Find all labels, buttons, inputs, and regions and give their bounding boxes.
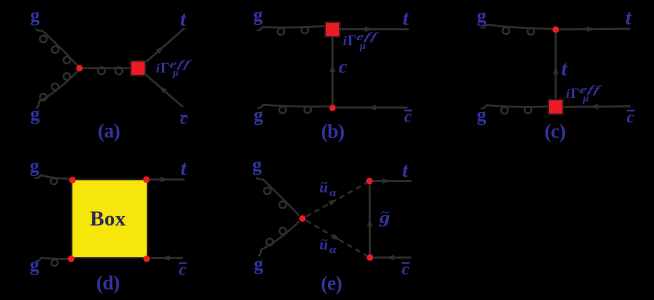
label u~_alpha (e bottom) (320, 233, 337, 256)
red square effective vertex (c) (548, 99, 563, 114)
label iGamma_eff_mu (b) (343, 30, 380, 51)
svg-text:i: i (343, 33, 347, 48)
charm antiquark line cbar (c) (564, 104, 631, 110)
svg-text:i: i (156, 61, 160, 76)
red corner dot (d top-right) (143, 176, 150, 183)
svg-text:(d): (d) (96, 272, 119, 294)
red square effective vertex (a) (131, 61, 146, 76)
svg-text:(c): (c) (545, 121, 566, 143)
svg-text:(a): (a) (98, 121, 120, 143)
overline of cbar (b) (404, 110, 412, 112)
top quark line t (b) (340, 26, 409, 32)
red corner dot (d bottom-right) (143, 255, 150, 262)
gluon propagator (a) (82, 67, 131, 74)
squark u~_alpha line (e top) (306, 183, 366, 217)
yellow Box blob (d) (72, 179, 148, 258)
svg-text:(e): (e) (321, 273, 342, 295)
svg-text:eff: eff (578, 83, 603, 95)
top quark line t (e) (373, 178, 412, 184)
charm antiquark line cbar (d) (151, 255, 183, 261)
svg-text:g: g (477, 105, 487, 126)
red vertex dot (e center) (299, 215, 306, 222)
gluon g (d bottom-left) (36, 258, 68, 266)
charm antiquark line cbar (a) (145, 74, 183, 107)
svg-text:g: g (252, 155, 262, 176)
overline of cbar (d) (179, 262, 187, 264)
svg-text:c: c (180, 109, 188, 128)
svg-text:~: ~ (321, 233, 328, 247)
label u~_alpha (e top) (320, 176, 337, 199)
svg-text:g: g (30, 6, 40, 27)
svg-text:α: α (329, 243, 337, 256)
gluino g~ propagator (e) (367, 185, 373, 255)
svg-text:μ: μ (172, 68, 179, 79)
gluon g (a bottom-left) (36, 71, 78, 108)
svg-text:g: g (30, 156, 40, 177)
svg-text:g: g (254, 254, 264, 275)
label iGamma_eff_mu (a) (156, 58, 193, 79)
svg-text:μ: μ (582, 94, 589, 105)
svg-text:~: ~ (321, 176, 328, 190)
top quark line t (c right) (559, 26, 630, 32)
gluon g (b top) (257, 26, 325, 35)
top quark line t (a) (146, 28, 185, 62)
charm antiquark line cbar (e) (374, 255, 412, 261)
svg-text:(b): (b) (321, 121, 344, 143)
svg-text:eff: eff (168, 58, 193, 70)
svg-text:i: i (566, 86, 570, 101)
top quark line t (d) (150, 177, 185, 183)
charm antiquark line cbar (b) (336, 105, 408, 111)
red vertex dot (a) triple-gluon vertex (76, 65, 83, 72)
gluon g (a top-left) (36, 29, 78, 67)
red vertex dot (c) (552, 26, 559, 33)
charm quark propagator c (b) (330, 37, 336, 104)
squark u~_alpha line (e bottom) (306, 221, 366, 256)
gluon g (b bottom) (258, 105, 330, 114)
overline of cbar (a) (180, 115, 187, 117)
svg-text:μ: μ (359, 41, 366, 52)
red vertex dot (e bottom-right) (367, 254, 374, 261)
svg-text:g: g (477, 6, 487, 27)
gluon g (e bottom-left) (258, 221, 299, 255)
gluon g (c bottom) (481, 105, 549, 114)
svg-text:g: g (254, 105, 264, 126)
label iGamma_eff_mu (c) (566, 83, 603, 104)
svg-text:Box: Box (90, 206, 126, 230)
overline of cbar (e) (402, 262, 410, 264)
svg-text:g: g (253, 5, 263, 26)
red corner dot (d top-left) (69, 177, 76, 184)
svg-text:~: ~ (381, 207, 390, 220)
svg-text:g: g (30, 104, 40, 125)
svg-text:c: c (339, 57, 348, 78)
svg-text:g: g (30, 255, 40, 276)
svg-text:α: α (329, 186, 337, 199)
svg-text:eff: eff (355, 30, 380, 42)
red corner dot (d bottom-left) (68, 255, 75, 262)
gluon g (c top) (481, 25, 552, 35)
red vertex dot (e top-right) (366, 178, 373, 185)
top quark propagator t (c) (553, 33, 559, 99)
gluon g (d top-left) (35, 175, 69, 184)
overline of cbar (c) (627, 110, 635, 112)
red square effective vertex (b) (325, 22, 340, 37)
label g~ gluino (e) (378, 207, 390, 228)
red vertex dot (b) (329, 105, 336, 112)
gluon g (e top-left) (257, 177, 300, 216)
